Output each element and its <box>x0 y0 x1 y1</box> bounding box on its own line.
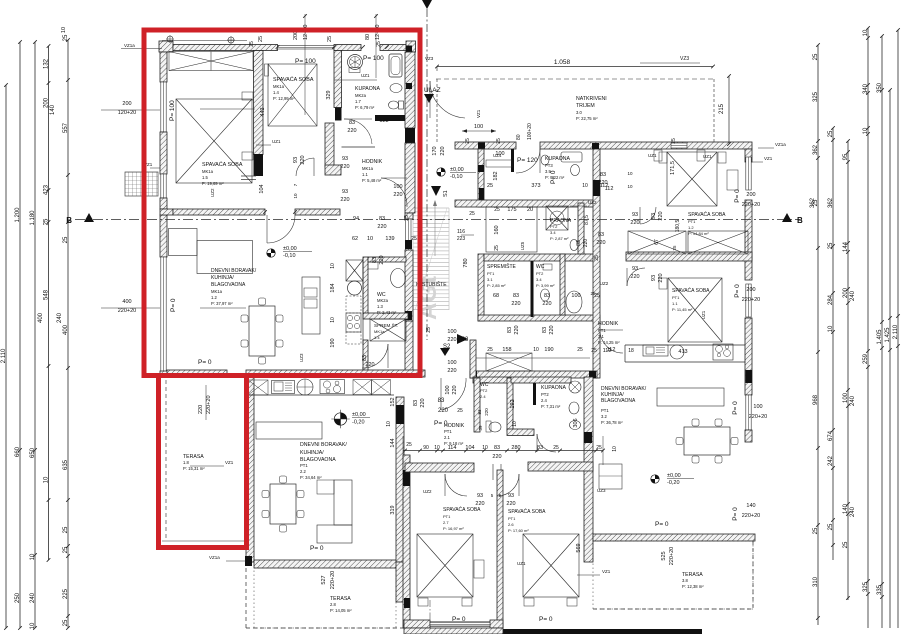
svg-text:83: 83 <box>362 355 368 361</box>
svg-text:VZ3: VZ3 <box>680 56 689 62</box>
svg-text:93: 93 <box>508 493 514 499</box>
svg-text:100: 100 <box>843 392 849 403</box>
svg-text:220: 220 <box>365 362 374 368</box>
svg-text:VZ1: VZ1 <box>764 156 773 161</box>
svg-text:284: 284 <box>828 294 834 305</box>
svg-text:220: 220 <box>300 155 306 164</box>
svg-text:90: 90 <box>423 445 429 451</box>
svg-text:220: 220 <box>377 224 386 230</box>
svg-text:KUPAONA: KUPAONA <box>545 156 571 162</box>
svg-text:VZ3: VZ3 <box>425 56 434 61</box>
svg-text:325: 325 <box>813 91 819 102</box>
svg-text:P: 6,79 m²: P: 6,79 m² <box>355 105 375 110</box>
svg-text:25: 25 <box>553 445 559 451</box>
svg-text:170: 170 <box>432 146 438 155</box>
svg-text:220: 220 <box>658 273 664 282</box>
svg-text:192: 192 <box>510 399 516 408</box>
svg-text:PT2: PT2 <box>536 271 544 276</box>
svg-text:400: 400 <box>63 324 69 335</box>
svg-text:P= 0: P= 0 <box>655 521 669 528</box>
svg-text:220: 220 <box>630 274 639 280</box>
svg-text:140: 140 <box>50 104 56 115</box>
svg-text:25: 25 <box>843 541 849 548</box>
svg-text:BLAGOVAONA: BLAGOVAONA <box>601 398 636 404</box>
svg-text:83: 83 <box>507 327 513 333</box>
svg-text:25: 25 <box>596 445 602 451</box>
svg-text:93: 93 <box>477 493 483 499</box>
svg-text:MK2a: MK2a <box>377 298 389 303</box>
svg-text:650: 650 <box>30 447 36 458</box>
svg-text:93: 93 <box>342 156 348 162</box>
svg-text:P= 0: P= 0 <box>732 507 739 521</box>
svg-text:100: 100 <box>393 184 402 190</box>
svg-text:240: 240 <box>30 592 36 603</box>
svg-text:220: 220 <box>420 398 426 407</box>
svg-text:220: 220 <box>630 220 639 226</box>
svg-text:25: 25 <box>469 211 475 217</box>
svg-text:VZ1a: VZ1a <box>775 142 786 147</box>
svg-text:220+20: 220+20 <box>742 202 761 208</box>
svg-text:10: 10 <box>512 421 518 427</box>
svg-text:220: 220 <box>658 211 664 220</box>
svg-text:3.4: 3.4 <box>536 277 542 282</box>
svg-text:200: 200 <box>122 101 131 107</box>
svg-text:83: 83 <box>542 327 548 333</box>
svg-text:10: 10 <box>293 193 298 199</box>
svg-text:400: 400 <box>122 299 131 305</box>
svg-text:25: 25 <box>457 408 463 414</box>
svg-text:200: 200 <box>746 287 755 293</box>
svg-text:SPREMIŠTE: SPREMIŠTE <box>487 263 517 270</box>
svg-text:P: 34,64 m²: P: 34,64 m² <box>300 475 322 480</box>
svg-text:25: 25 <box>494 207 500 213</box>
svg-text:±0,00: ±0,00 <box>450 167 464 173</box>
svg-text:1.180: 1.180 <box>30 210 36 226</box>
svg-text:116: 116 <box>457 229 465 235</box>
svg-text:3.9: 3.9 <box>545 169 551 174</box>
svg-text:1.8: 1.8 <box>183 460 189 465</box>
svg-text:2.6: 2.6 <box>508 522 514 527</box>
svg-text:1.1: 1.1 <box>672 301 678 306</box>
svg-text:10: 10 <box>43 476 49 483</box>
svg-text:18: 18 <box>628 348 634 354</box>
svg-text:SPAVAĆA SOBA: SPAVAĆA SOBA <box>508 508 546 515</box>
svg-text:968: 968 <box>813 394 819 405</box>
svg-text:P: 5,48 m²: P: 5,48 m² <box>362 178 382 183</box>
svg-text:83: 83 <box>379 216 385 222</box>
svg-text:-0,20: -0,20 <box>352 420 365 426</box>
svg-text:PT2: PT2 <box>550 224 558 229</box>
svg-text:2.4: 2.4 <box>541 398 547 403</box>
svg-text:80: 80 <box>365 34 371 40</box>
svg-text:P= 100: P= 100 <box>363 55 384 62</box>
svg-text:1.4: 1.4 <box>374 335 380 340</box>
svg-text:SPAVAĆA SOBA: SPAVAĆA SOBA <box>443 506 481 513</box>
svg-text:548: 548 <box>43 289 49 300</box>
svg-text:25: 25 <box>404 215 410 221</box>
svg-text:83: 83 <box>413 400 419 406</box>
svg-text:1.405: 1.405 <box>877 329 883 345</box>
svg-text:1.2: 1.2 <box>211 295 217 300</box>
svg-text:220: 220 <box>447 368 456 374</box>
svg-text:100: 100 <box>445 385 451 394</box>
svg-text:83: 83 <box>576 240 582 246</box>
svg-text:25: 25 <box>63 619 69 626</box>
svg-text:P: 14,84 m²: P: 14,84 m² <box>688 231 709 236</box>
svg-text:P: 14,25 m²: P: 14,25 m² <box>598 340 620 345</box>
svg-text:280: 280 <box>511 445 520 451</box>
svg-text:362: 362 <box>828 197 834 208</box>
svg-text:240: 240 <box>57 312 63 323</box>
svg-text:10: 10 <box>386 421 392 427</box>
svg-text:PT1: PT1 <box>601 408 609 413</box>
svg-text:144: 144 <box>843 241 849 252</box>
svg-text:MK1a: MK1a <box>273 84 285 89</box>
svg-text:25: 25 <box>671 138 677 144</box>
svg-text:PT1: PT1 <box>443 514 451 519</box>
svg-text:UZ1: UZ1 <box>361 73 370 78</box>
svg-text:25: 25 <box>591 348 597 354</box>
svg-text:25: 25 <box>487 183 493 189</box>
svg-text:220: 220 <box>452 385 458 394</box>
svg-text:140: 140 <box>746 503 755 509</box>
svg-text:1.5: 1.5 <box>202 175 208 180</box>
svg-text:P= 0: P= 0 <box>170 298 177 312</box>
svg-text:UZ1: UZ1 <box>517 561 526 566</box>
svg-text:P= 120: P= 120 <box>517 157 538 164</box>
svg-text:UZ2: UZ2 <box>600 281 609 286</box>
svg-text:25: 25 <box>258 36 264 42</box>
svg-text:67: 67 <box>654 239 660 245</box>
svg-text:25: 25 <box>813 527 819 534</box>
svg-text:25: 25 <box>590 291 596 296</box>
svg-text:423: 423 <box>43 184 49 195</box>
svg-text:25: 25 <box>249 41 255 47</box>
svg-text:87,5: 87,5 <box>584 215 590 225</box>
svg-text:P= 0: P= 0 <box>732 401 739 415</box>
svg-text:SPREM.ŠT.: SPREM.ŠT. <box>374 322 398 328</box>
svg-text:112: 112 <box>605 186 614 192</box>
svg-text:240: 240 <box>850 506 856 517</box>
svg-text:MK2a: MK2a <box>355 93 367 98</box>
svg-text:P: 12,99 m²: P: 12,99 m² <box>273 96 295 101</box>
svg-text:S1: S1 <box>443 190 449 197</box>
svg-text:220: 220 <box>393 192 402 198</box>
svg-text:83: 83 <box>438 398 445 404</box>
svg-text:25: 25 <box>487 347 493 353</box>
svg-text:220: 220 <box>549 325 555 334</box>
svg-text:25: 25 <box>465 138 471 144</box>
svg-text:10: 10 <box>627 184 633 189</box>
svg-text:25: 25 <box>594 255 600 261</box>
svg-text:10: 10 <box>627 171 633 176</box>
svg-text:25: 25 <box>577 347 583 353</box>
svg-text:340: 340 <box>863 83 869 94</box>
svg-text:10: 10 <box>863 127 869 134</box>
svg-text:1.7: 1.7 <box>355 99 361 104</box>
svg-text:93: 93 <box>342 189 348 195</box>
svg-text:93: 93 <box>632 266 638 272</box>
svg-text:P: 17,60 m²: P: 17,60 m² <box>508 528 529 533</box>
svg-text:P: 14,05 m²: P: 14,05 m² <box>330 608 352 613</box>
svg-text:250: 250 <box>15 592 21 603</box>
svg-text:362: 362 <box>813 144 819 155</box>
svg-text:2.8: 2.8 <box>330 602 336 607</box>
svg-text:10: 10 <box>330 317 336 323</box>
svg-text:220+20: 220+20 <box>742 297 761 303</box>
svg-text:220: 220 <box>475 501 484 507</box>
svg-text:220+20: 220+20 <box>330 571 336 590</box>
svg-text:MK1a: MK1a <box>202 169 214 174</box>
svg-text:VZ1: VZ1 <box>476 109 481 118</box>
svg-text:25: 25 <box>828 130 834 137</box>
svg-text:83: 83 <box>372 257 378 263</box>
svg-text:350: 350 <box>877 82 883 93</box>
svg-text:220: 220 <box>511 301 520 307</box>
svg-text:93: 93 <box>651 213 657 219</box>
svg-text:10: 10 <box>367 236 373 242</box>
svg-text:3.2: 3.2 <box>601 414 607 419</box>
svg-text:10: 10 <box>582 183 588 189</box>
svg-text:TRIJEM: TRIJEM <box>576 103 595 109</box>
svg-text:184: 184 <box>330 283 336 292</box>
svg-text:UZ2: UZ2 <box>210 188 215 197</box>
svg-text:P: 15,31 m²: P: 15,31 m² <box>183 466 205 471</box>
svg-text:2.7: 2.7 <box>443 520 449 525</box>
svg-text:3.4: 3.4 <box>550 230 556 235</box>
svg-text:220+20: 220+20 <box>206 395 212 414</box>
svg-text:100: 100 <box>447 360 456 366</box>
svg-text:PT1: PT1 <box>300 463 308 468</box>
svg-text:569: 569 <box>576 543 582 552</box>
svg-text:190: 190 <box>544 347 553 353</box>
svg-text:25: 25 <box>411 236 417 242</box>
svg-text:10: 10 <box>533 347 539 353</box>
svg-text:80: 80 <box>516 134 522 140</box>
svg-text:319: 319 <box>390 505 396 514</box>
svg-text:20: 20 <box>527 207 533 213</box>
svg-text:83: 83 <box>477 409 482 415</box>
svg-text:83: 83 <box>513 293 519 299</box>
svg-text:182: 182 <box>493 171 499 180</box>
svg-text:140: 140 <box>843 503 849 514</box>
svg-text:220: 220 <box>447 337 456 343</box>
svg-text:93: 93 <box>293 157 299 163</box>
svg-text:VZ1a: VZ1a <box>124 43 135 48</box>
svg-text:220: 220 <box>198 405 204 414</box>
svg-text:1.200: 1.200 <box>15 207 21 223</box>
svg-text:25: 25 <box>63 236 69 243</box>
svg-text:1.3: 1.3 <box>377 304 383 309</box>
svg-text:2.1: 2.1 <box>444 435 450 440</box>
svg-text:160: 160 <box>494 225 500 234</box>
svg-text:242: 242 <box>828 455 834 466</box>
svg-text:B: B <box>797 216 803 225</box>
svg-text:1.2: 1.2 <box>688 225 694 230</box>
svg-text:2.110: 2.110 <box>1 348 7 363</box>
svg-text:139: 139 <box>385 236 394 242</box>
svg-text:240: 240 <box>850 395 856 406</box>
svg-text:362: 362 <box>810 197 816 208</box>
svg-text:P: 19,69 m²: P: 19,69 m² <box>202 181 224 186</box>
svg-text:UZ1: UZ1 <box>272 139 281 144</box>
svg-text:220: 220 <box>440 146 446 155</box>
svg-text:PT1: PT1 <box>598 328 606 333</box>
svg-text:220: 220 <box>506 501 515 507</box>
svg-text:-0,10: -0,10 <box>283 253 296 259</box>
svg-text:P: 2,87 m²: P: 2,87 m² <box>550 236 569 241</box>
svg-text:329: 329 <box>326 90 332 99</box>
svg-text:373: 373 <box>531 183 540 189</box>
svg-text:400: 400 <box>38 312 44 323</box>
svg-text:P: 9,22 m²: P: 9,22 m² <box>545 175 565 180</box>
svg-text:2.2: 2.2 <box>300 469 306 474</box>
svg-text:1.425: 1.425 <box>885 327 891 343</box>
svg-text:152: 152 <box>390 397 396 406</box>
svg-text:PT2: PT2 <box>480 388 488 393</box>
svg-text:KUPAONA: KUPAONA <box>541 385 567 391</box>
svg-text:100: 100 <box>495 151 504 157</box>
svg-text:83: 83 <box>494 445 500 451</box>
svg-text:25: 25 <box>63 546 69 553</box>
svg-text:225: 225 <box>63 588 69 599</box>
svg-text:25: 25 <box>43 218 49 225</box>
svg-text:10: 10 <box>482 445 488 451</box>
svg-text:220: 220 <box>492 454 501 460</box>
svg-text:P: 12,38 m²: P: 12,38 m² <box>682 584 704 589</box>
svg-text:-0,20: -0,20 <box>667 480 680 486</box>
svg-text:335: 335 <box>877 584 883 595</box>
svg-text:P= 0: P= 0 <box>310 545 324 552</box>
svg-text:780: 780 <box>463 258 469 267</box>
svg-text:P: 11,45 m²: P: 11,45 m² <box>672 307 693 312</box>
svg-text:95: 95 <box>843 153 849 160</box>
svg-text:DNEVNI BORAVAK/: DNEVNI BORAVAK/ <box>300 442 347 448</box>
svg-text:MK1a: MK1a <box>374 329 385 334</box>
svg-text:525: 525 <box>661 551 667 560</box>
svg-text:VZ1: VZ1 <box>602 569 611 574</box>
svg-text:UZ1: UZ1 <box>648 153 657 158</box>
svg-text:660: 660 <box>15 446 21 457</box>
svg-text:P= 0: P= 0 <box>539 616 553 623</box>
svg-text:HODNIK: HODNIK <box>362 159 383 165</box>
svg-text:25: 25 <box>63 34 69 41</box>
svg-text:62: 62 <box>352 236 358 242</box>
svg-text:200: 200 <box>746 192 755 198</box>
svg-text:306: 306 <box>573 418 579 427</box>
svg-text:BLAGOVAONA: BLAGOVAONA <box>211 282 246 288</box>
svg-text:171,5: 171,5 <box>670 161 676 175</box>
svg-text:B: B <box>66 216 72 225</box>
svg-text:SPAVAĆA SOBA: SPAVAĆA SOBA <box>202 161 243 168</box>
svg-text:25: 25 <box>494 245 500 251</box>
svg-text:2.4: 2.4 <box>480 394 486 399</box>
svg-text:220+20: 220+20 <box>118 308 137 314</box>
svg-text:100+20: 100+20 <box>527 123 533 140</box>
svg-text:83: 83 <box>349 120 355 126</box>
svg-text:P= 0: P= 0 <box>734 189 741 203</box>
svg-text:UZ3: UZ3 <box>597 488 606 493</box>
svg-text:10: 10 <box>828 325 834 332</box>
svg-text:10: 10 <box>30 553 36 560</box>
svg-text:-0,10: -0,10 <box>450 174 463 180</box>
svg-text:DNEVNI BORAVAK/: DNEVNI BORAVAK/ <box>211 268 257 274</box>
svg-text:25: 25 <box>496 138 502 144</box>
svg-text:25: 25 <box>828 242 834 249</box>
svg-text:2.110: 2.110 <box>893 324 899 339</box>
svg-text:S3: S3 <box>461 337 469 343</box>
svg-text:200: 200 <box>43 97 49 108</box>
svg-text:PT1: PT1 <box>444 429 452 434</box>
svg-text:MK1a: MK1a <box>211 289 223 294</box>
svg-text:180,5: 180,5 <box>675 220 681 233</box>
svg-text:100: 100 <box>474 124 483 130</box>
svg-text:220: 220 <box>340 197 349 203</box>
svg-text:P: 36,78 m²: P: 36,78 m² <box>601 420 623 425</box>
svg-text:VZ1a: VZ1a <box>209 555 220 560</box>
svg-text:325: 325 <box>863 581 869 592</box>
svg-text:25: 25 <box>813 53 819 60</box>
svg-text:SPAVAĆA SOBA: SPAVAĆA SOBA <box>672 287 710 294</box>
svg-text:P= 0: P= 0 <box>452 616 466 623</box>
svg-text:P: 22,75 m²: P: 22,75 m² <box>576 116 598 121</box>
svg-text:220+20: 220+20 <box>749 414 768 420</box>
svg-text:10: 10 <box>863 29 869 36</box>
svg-text:220: 220 <box>542 301 551 307</box>
svg-text:PT1: PT1 <box>508 516 516 521</box>
svg-text:220+20: 220+20 <box>669 547 675 566</box>
svg-text:SPAVAĆA SOBA: SPAVAĆA SOBA <box>688 211 726 218</box>
svg-text:220: 220 <box>379 255 385 264</box>
svg-text:25: 25 <box>406 442 412 448</box>
svg-text:220+20: 220+20 <box>742 513 761 519</box>
svg-text:UZ2: UZ2 <box>423 489 432 494</box>
svg-text:WC: WC <box>536 264 545 270</box>
svg-text:132: 132 <box>43 58 49 69</box>
svg-text:220: 220 <box>340 164 349 170</box>
svg-text:93: 93 <box>632 212 638 218</box>
svg-text:UZ2: UZ2 <box>588 200 597 205</box>
svg-text:128: 128 <box>379 118 388 124</box>
svg-text:25: 25 <box>426 327 432 333</box>
svg-text:68: 68 <box>493 293 499 299</box>
svg-text:25: 25 <box>376 41 382 47</box>
svg-text:190: 190 <box>330 338 336 347</box>
svg-text:3.1: 3.1 <box>598 334 604 339</box>
svg-text:94: 94 <box>353 216 359 222</box>
svg-text:200: 200 <box>843 287 849 298</box>
svg-text:635: 635 <box>63 459 69 470</box>
svg-text:±0,00: ±0,00 <box>667 473 681 479</box>
svg-text:UZ3: UZ3 <box>299 353 304 362</box>
svg-text:100: 100 <box>753 404 762 410</box>
svg-text:83: 83 <box>598 232 604 238</box>
svg-text:3.8: 3.8 <box>682 578 688 583</box>
svg-text:223: 223 <box>457 236 466 242</box>
svg-text:114: 114 <box>448 445 457 451</box>
svg-text:25: 25 <box>63 526 69 533</box>
svg-text:83: 83 <box>600 172 606 178</box>
svg-text:557: 557 <box>63 122 69 133</box>
svg-text:PT2: PT2 <box>541 392 549 397</box>
svg-text:SPAVAĆA SOBA: SPAVAĆA SOBA <box>273 76 314 83</box>
svg-text:112: 112 <box>603 348 612 354</box>
svg-text:KUHINJA/: KUHINJA/ <box>211 275 234 281</box>
svg-text:PT1: PT1 <box>688 219 696 224</box>
svg-text:220: 220 <box>347 128 356 134</box>
svg-text:1.1: 1.1 <box>362 172 368 177</box>
svg-text:PT1: PT1 <box>487 271 495 276</box>
